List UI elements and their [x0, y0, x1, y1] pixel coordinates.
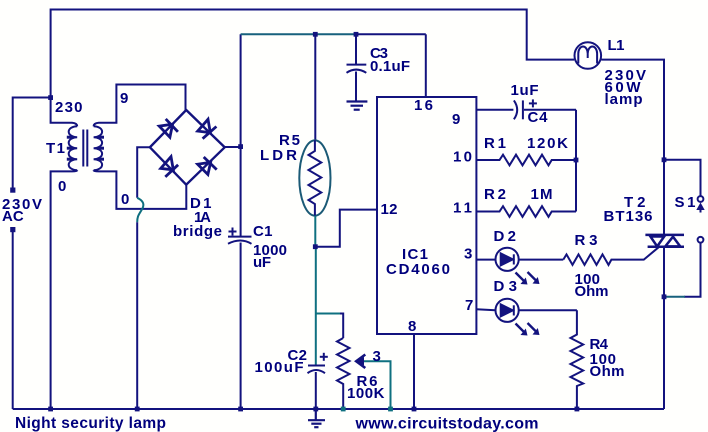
junction pin12 to LDR bottom [313, 244, 318, 249]
svg-text:10: 10 [453, 149, 472, 166]
svg-text:D3: D3 [494, 278, 518, 295]
resistor R2 [476, 206, 576, 217]
svg-text:0: 0 [121, 191, 129, 208]
resistor R4 [571, 310, 584, 409]
LDR R5 [299, 34, 330, 246]
capacitor C1 [228, 34, 252, 409]
resistor R3 [563, 247, 658, 265]
ground under C3 [347, 102, 368, 110]
svg-text:R1: R1 [484, 135, 506, 152]
svg-text:lamp: lamp [605, 91, 643, 108]
wire lamp to triac column [601, 60, 664, 160]
lamp L1 [575, 42, 602, 69]
capacitor C2 [308, 353, 328, 409]
arrow pin3 to R6 [362, 361, 391, 409]
svg-text:Ohm: Ohm [575, 283, 609, 300]
junction C2 ground on ground rail [313, 407, 318, 412]
wire pin12 [315, 210, 377, 247]
svg-text:100K: 100K [347, 385, 385, 402]
triac T2 [645, 235, 684, 247]
capacitor C4 [514, 99, 576, 119]
wire pin9 to C4 [476, 109, 513, 111]
svg-text:uF: uF [253, 254, 271, 271]
wire pin16 drop [425, 34, 427, 97]
junction bridge output to DC rail [238, 144, 243, 149]
svg-text:3: 3 [373, 348, 381, 365]
junction R6 on ground rail [341, 407, 346, 412]
primary bottom lead [51, 170, 78, 409]
junction pin3 arrow line on ground rail [388, 407, 393, 412]
junction C3 on vcc rail [354, 32, 359, 37]
junction pin8 on ground rail [412, 407, 417, 412]
wire bridge plus lead [225, 146, 241, 148]
LED D2 [476, 248, 563, 271]
junction LDR top on vcc rail [313, 32, 318, 37]
LED D3 [476, 299, 577, 322]
wire triac column upper [663, 160, 665, 235]
svg-text:S1: S1 [675, 194, 696, 211]
svg-text:9: 9 [120, 90, 128, 107]
svg-text:BT136: BT136 [604, 208, 653, 225]
IC1 box [377, 97, 476, 334]
junction bridge minus on ground rail [135, 407, 140, 412]
wire bridge minus lead [137, 147, 150, 198]
secondary winding [94, 126, 103, 170]
diode top-left [159, 119, 178, 137]
junction C1 on ground rail [238, 407, 243, 412]
svg-text:bridge: bridge [173, 223, 222, 240]
svg-text:CD4060: CD4060 [386, 261, 450, 278]
wire triac column lower [663, 247, 665, 409]
svg-text:D2: D2 [494, 228, 517, 245]
resistor R6 [337, 338, 350, 409]
junction transformer primary on ground rail [48, 407, 53, 412]
wire vcc rail navy part [356, 33, 426, 35]
svg-text:L1: L1 [608, 37, 625, 54]
svg-text:0: 0 [58, 178, 66, 195]
svg-text:230: 230 [55, 99, 83, 116]
capacitor C3 [347, 34, 367, 101]
junction S1 top tap [662, 157, 667, 162]
svg-text:11: 11 [453, 200, 472, 217]
ground under C2 [308, 409, 325, 427]
wire S1 bottom teal part [664, 296, 685, 298]
svg-text:8: 8 [408, 318, 416, 335]
terminal 230V top [10, 188, 15, 193]
wire hop over zero wire [137, 198, 143, 223]
svg-text:C1: C1 [253, 223, 273, 240]
diode bottom-right [198, 157, 217, 175]
junction AC input to transformer primary [48, 95, 53, 100]
switch S1 [664, 160, 703, 297]
D2 emission arrows [516, 272, 537, 282]
wire LDR to C2 [315, 247, 317, 366]
wire pin8 [413, 334, 415, 409]
wire bridge minus to rail [136, 222, 138, 409]
svg-text:R2: R2 [484, 186, 506, 203]
wire AC input top [13, 98, 51, 189]
junction R4 on ground rail [575, 407, 580, 412]
primary top lead [51, 98, 78, 127]
svg-text:T1: T1 [46, 140, 65, 157]
wire branch to R6 [316, 313, 341, 315]
svg-text:C4: C4 [528, 109, 549, 126]
svg-text:0.1uF: 0.1uF [370, 58, 410, 75]
wire bottom rail [13, 408, 664, 410]
svg-text:100uF: 100uF [255, 359, 304, 376]
svg-text:AC: AC [2, 208, 24, 225]
primary winding [69, 126, 78, 170]
svg-text:12: 12 [381, 201, 398, 218]
bridge D1 [150, 110, 225, 185]
D3 emission arrows [516, 323, 537, 333]
diode bottom-left [161, 157, 178, 177]
svg-text:1uF: 1uF [511, 82, 539, 99]
core line right [86, 130, 88, 167]
junction S1 bottom tap [662, 294, 667, 299]
wire AC input bottom [12, 232, 14, 410]
svg-text:9: 9 [452, 111, 460, 128]
svg-text:Ohm: Ohm [590, 363, 625, 380]
svg-text:3: 3 [464, 246, 472, 263]
wire top rail [51, 10, 575, 98]
secondary bottom lead [94, 170, 187, 209]
svg-text:R3: R3 [575, 232, 598, 249]
transformer T1 [51, 85, 187, 410]
diode top-right [198, 119, 217, 138]
core line left [82, 130, 84, 167]
svg-text:120K: 120K [527, 135, 568, 152]
wire C4/R1/R2 right bus [575, 110, 577, 212]
junction R1 C4 R2 bus [574, 158, 579, 163]
svg-text:1M: 1M [531, 186, 553, 203]
resistor R1 [476, 155, 576, 166]
svg-text:16: 16 [414, 97, 433, 114]
svg-text:Night security lamp: Night security lamp [15, 415, 166, 432]
wire vcc rail teal part [241, 33, 356, 35]
S1 arrow head [696, 203, 704, 211]
secondary top lead [94, 85, 186, 127]
svg-text:LDR: LDR [260, 147, 297, 164]
svg-text:7: 7 [465, 297, 473, 314]
svg-text:www.circuitstoday.com: www.circuitstoday.com [355, 416, 539, 432]
terminal 230V bottom [10, 227, 15, 232]
